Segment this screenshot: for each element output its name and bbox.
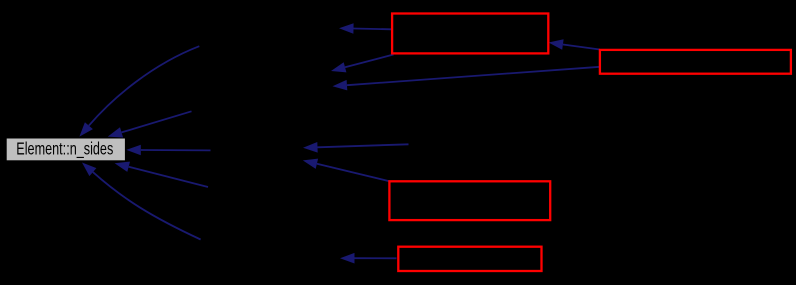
edge red-box-A -> hidden node 2 (down-left) bbox=[331, 55, 394, 73]
edge red-box-C -> hidden node 3 bbox=[303, 159, 390, 182]
node red box B (right) bbox=[600, 50, 791, 74]
edge hidden-node3 -> Element::n_sides (horizontal) bbox=[126, 145, 210, 156]
node red box A (top) bbox=[392, 14, 548, 54]
svg-text:Element::n_sides: Element::n_sides bbox=[16, 139, 113, 159]
edge hidden-node5 -> Element::n_sides (bottom curve) bbox=[82, 163, 201, 240]
edge red-box-D -> hidden node 4 (bottom horizontal) bbox=[340, 253, 397, 264]
node Element::n_sides (gray box) bbox=[6, 138, 125, 161]
node red box C (lower middle) bbox=[389, 181, 550, 220]
edge hidden-node4 -> Element::n_sides (lower straight) bbox=[115, 162, 208, 187]
edge red-box-B -> hidden node 2 (long shallow) bbox=[333, 67, 600, 91]
edge hidden-node1 -> Element::n_sides (top curve) bbox=[79, 46, 199, 136]
edge red-box-B -> red-box-A bbox=[549, 39, 600, 50]
node red box D (bottom) bbox=[398, 247, 541, 271]
edge hidden mid node -> hidden node 3 bbox=[303, 142, 409, 153]
edge hidden-node2 -> Element::n_sides (upper straight) bbox=[108, 111, 192, 137]
edge red-box-A -> hidden node 1 (top horizontal) bbox=[339, 23, 391, 34]
